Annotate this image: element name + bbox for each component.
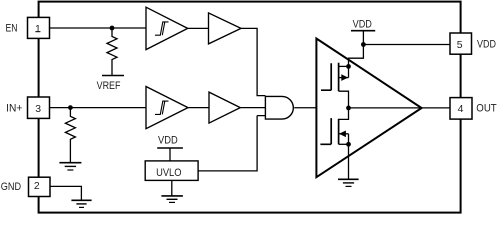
svg-text:OUT: OUT	[476, 103, 496, 115]
svg-text:5: 5	[457, 40, 463, 51]
svg-text:3: 3	[35, 104, 41, 115]
svg-text:VDD: VDD	[477, 39, 496, 51]
svg-text:1: 1	[35, 24, 41, 35]
svg-text:IN+: IN+	[6, 103, 22, 114]
svg-text:EN: EN	[6, 23, 18, 35]
svg-text:GND: GND	[1, 181, 21, 193]
svg-text:4: 4	[458, 104, 464, 115]
svg-text:VREF: VREF	[97, 80, 121, 92]
svg-text:UVLO: UVLO	[156, 167, 181, 179]
svg-text:2: 2	[34, 181, 40, 192]
svg-text:VDD: VDD	[158, 135, 178, 147]
svg-text:VDD: VDD	[353, 19, 372, 31]
